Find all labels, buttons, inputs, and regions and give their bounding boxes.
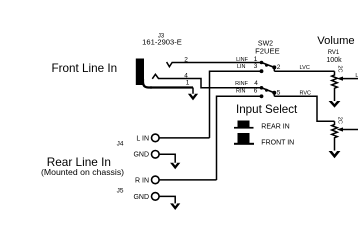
pin number 2	[184, 57, 188, 64]
svg-text:RVC: RVC	[300, 90, 312, 96]
potentiometer RV1 gang B pin text	[337, 117, 343, 124]
J3 pin 4 ring contact	[152, 74, 158, 79]
svg-text:FRONT IN: FRONT IN	[261, 140, 294, 147]
label Front Line In	[52, 62, 118, 75]
ground at J5	[170, 203, 180, 210]
RV1 gang A wiper	[337, 77, 358, 81]
svg-text:5: 5	[277, 90, 281, 97]
svg-text:Volume: Volume	[317, 35, 354, 47]
wire LVC	[274, 70, 334, 72]
ground under RV1 gang B	[329, 151, 341, 158]
wire pin2 LINF	[172, 62, 262, 64]
net label L (wiper out, clipped)	[355, 73, 358, 79]
svg-text:LINF: LINF	[236, 57, 249, 63]
svg-text:R IN: R IN	[135, 177, 149, 184]
ground at J4	[170, 163, 180, 170]
svg-text:4: 4	[254, 80, 258, 87]
svg-text:RIN: RIN	[236, 89, 246, 95]
svg-text:REAR IN: REAR IN	[261, 123, 289, 130]
RV1 gang B wiper	[337, 127, 358, 131]
pin number 3	[254, 63, 258, 70]
switch SW2 section A contacts	[260, 61, 277, 73]
pin number 1	[186, 79, 190, 86]
wire RVC	[274, 96, 334, 121]
svg-text:RV1: RV1	[328, 50, 340, 56]
J3 pin 2 tip contact	[167, 62, 173, 67]
svg-text:2: 2	[277, 64, 281, 71]
connector J3 label	[142, 34, 182, 47]
pin number 4 (SW2)	[254, 80, 258, 87]
svg-text:F2UEE: F2UEE	[255, 46, 279, 55]
wire RIN from R IN riser	[217, 96, 262, 180]
svg-text:RINF: RINF	[235, 81, 248, 87]
svg-text:1: 1	[254, 56, 258, 63]
ground under RV1 gang A	[329, 101, 341, 108]
svg-text:J4: J4	[117, 141, 124, 148]
svg-text:6: 6	[254, 88, 258, 95]
potentiometer RV1 gang A	[332, 71, 338, 101]
icon FRONT IN switch position	[234, 133, 254, 145]
connector J4 pin L IN	[136, 134, 209, 142]
wire pin4 RINF	[158, 79, 262, 88]
connector J3 jack body	[136, 59, 152, 88]
potentiometer RV1 gang B	[332, 121, 338, 150]
ground at J3 pin1	[188, 94, 198, 101]
net label LIN	[237, 64, 246, 70]
label Rear Line In	[41, 155, 124, 177]
connector J5 pin R IN	[135, 176, 217, 184]
net label RVC	[300, 90, 312, 96]
connector J5 label	[117, 188, 124, 195]
svg-text:GND: GND	[133, 194, 149, 201]
label Input Select	[236, 103, 298, 116]
svg-text:161-2903-E: 161-2903-E	[142, 37, 182, 46]
svg-text:LVC: LVC	[300, 65, 310, 71]
connector J5 pin GND	[133, 193, 175, 204]
pin number 2 (SW2)	[277, 64, 281, 71]
svg-text:2: 2	[184, 57, 188, 64]
potentiometer RV1 gang A pin text	[337, 66, 343, 73]
svg-text:L IN: L IN	[136, 135, 149, 142]
icon REAR IN switch position	[234, 121, 254, 129]
svg-text:LIN: LIN	[237, 64, 246, 70]
svg-text:3: 3	[254, 63, 258, 70]
svg-text:Input Select: Input Select	[236, 103, 298, 116]
svg-text:(Mounted on chassis): (Mounted on chassis)	[41, 167, 124, 177]
svg-text:2C: 2C	[337, 66, 343, 73]
pin number 1 (SW2)	[254, 56, 258, 63]
svg-text:GND: GND	[133, 152, 149, 159]
label FRONT IN	[261, 140, 294, 147]
net label LINF	[236, 57, 249, 63]
net label RIN	[236, 89, 246, 95]
potentiometer RV1 label	[326, 50, 342, 64]
wire LIN from L IN riser	[210, 71, 262, 138]
switch SW2 labels	[255, 41, 279, 56]
label REAR IN	[261, 123, 289, 130]
connector J4 pin GND	[133, 151, 175, 164]
pin number 6	[254, 88, 258, 95]
net label RINF	[235, 81, 248, 87]
svg-text:1: 1	[186, 79, 190, 86]
svg-text:Front Line In: Front Line In	[52, 62, 118, 75]
connector J4 label	[117, 141, 124, 148]
pin number 4	[184, 73, 188, 80]
svg-text:J5: J5	[117, 188, 124, 195]
switch SW2 section B contacts	[260, 86, 277, 98]
svg-text:2C: 2C	[337, 117, 343, 124]
pin number 5	[277, 90, 281, 97]
wire pin1 sleeve	[150, 88, 193, 95]
svg-text:100k: 100k	[326, 57, 342, 64]
net label LVC	[300, 65, 310, 71]
label Volume	[317, 35, 354, 47]
